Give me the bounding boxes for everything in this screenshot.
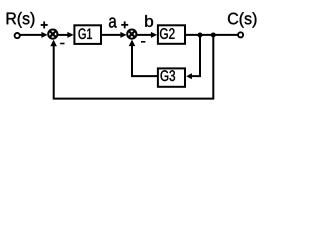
- wire junction 1 to G1: [57, 34, 69, 36]
- wire dot 2 down along bottom to junction 1: [54, 35, 214, 99]
- summing junction 1: [48, 29, 57, 38]
- node C(s) output label: [228, 12, 256, 27]
- output terminal: [238, 32, 243, 37]
- junction dot 1: [198, 33, 203, 38]
- plus sign at junction 1: [41, 24, 48, 26]
- node R(s) input label: [7, 12, 35, 28]
- block G2: [158, 25, 185, 44]
- summing junction 2: [127, 29, 136, 38]
- minus sign at junction 1: [60, 43, 64, 45]
- minus sign at junction 2: [141, 41, 145, 43]
- wire dot 1 down to G3 input: [191, 35, 200, 76]
- input terminal: [15, 33, 20, 38]
- wire G2 to output terminal: [186, 34, 238, 36]
- plus sign at junction 2: [121, 24, 128, 26]
- block G3: [158, 68, 185, 86]
- node a label: [109, 18, 117, 28]
- wire input to summing junction 1: [20, 34, 43, 36]
- wire G3 output up to junction 2: [132, 45, 157, 76]
- wire G1 to summing junction 2: [102, 34, 122, 36]
- wire junction 2 to G2: [136, 34, 152, 36]
- block G1: [74, 25, 101, 44]
- junction dot 2: [211, 33, 216, 38]
- node b label: [145, 15, 153, 27]
